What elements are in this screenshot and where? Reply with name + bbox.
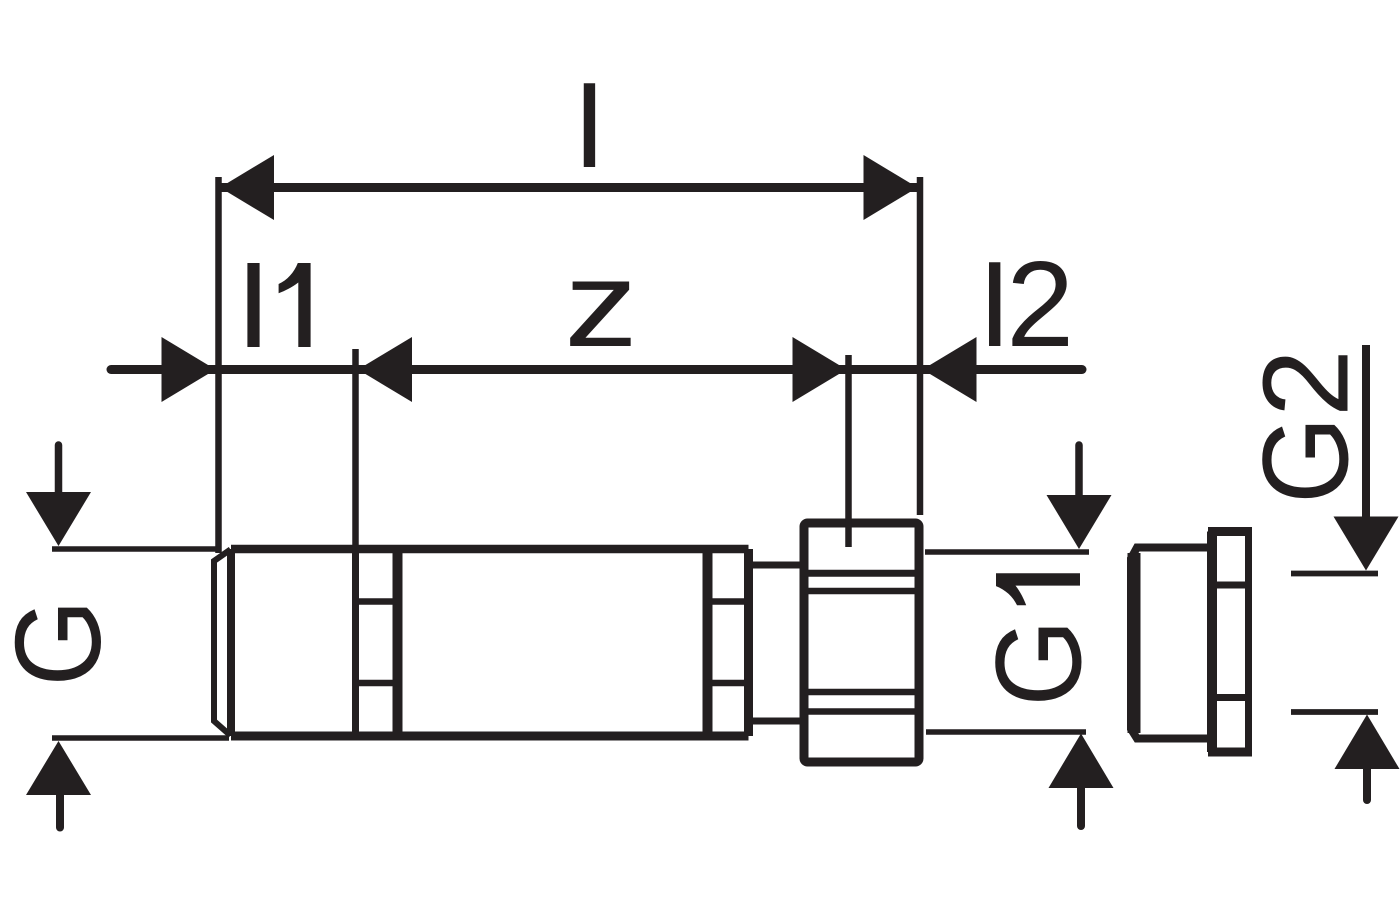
svg-text:G: G xyxy=(1237,416,1373,503)
svg-text:2: 2 xyxy=(1238,349,1374,417)
svg-text:G: G xyxy=(970,619,1106,706)
svg-text:G: G xyxy=(0,599,126,686)
svg-text:z: z xyxy=(564,235,638,372)
svg-text:2: 2 xyxy=(1006,236,1074,372)
svg-text:I: I xyxy=(573,57,607,193)
